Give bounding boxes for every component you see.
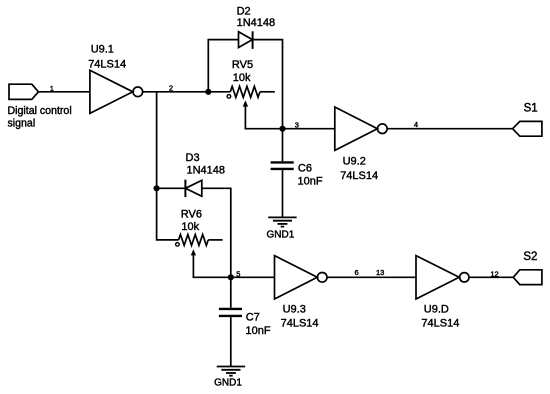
svg-text:2: 2	[169, 83, 173, 92]
diode D2	[239, 31, 253, 49]
wire node 3 down to C6	[282, 129, 284, 162]
svg-text:74LS14: 74LS14	[421, 318, 459, 330]
wire input to U9.1	[38, 91, 90, 93]
svg-text:U9.1: U9.1	[91, 43, 114, 55]
wire node 2 down to D3 branch	[156, 92, 158, 189]
wire node 5 down to C7	[230, 277, 232, 308]
svg-text:U9.D: U9.D	[424, 303, 449, 315]
wire U9.3 output to U9.D	[327, 276, 416, 278]
wire node 5	[231, 276, 275, 278]
potentiometer RV6	[176, 235, 223, 247]
ground GND1 (C6)	[268, 217, 296, 226]
svg-text:12: 12	[490, 269, 498, 278]
capacitor C7	[219, 309, 242, 316]
svg-text:4: 4	[414, 120, 418, 129]
output tag S1	[513, 121, 542, 136]
svg-text:C6: C6	[298, 163, 312, 175]
wire U9.D output to S2	[469, 276, 513, 278]
output tag S2	[513, 270, 542, 285]
wire C7 to ground	[230, 317, 232, 366]
wire down-left to RV6	[157, 188, 179, 240]
inverter U9.1	[90, 70, 143, 113]
wire D3 to vertical down to node 5	[202, 188, 231, 277]
svg-text:10nF: 10nF	[246, 325, 271, 337]
wire to D3	[157, 187, 186, 189]
svg-text:10k: 10k	[181, 221, 199, 233]
inverter U9.D	[416, 256, 469, 299]
RV6 wiper arrow	[191, 249, 231, 277]
junction node 2	[205, 89, 211, 95]
svg-text:S1: S1	[524, 103, 538, 115]
junction D3 anode node	[154, 185, 160, 191]
inverter U9.3	[275, 256, 328, 299]
svg-text:U9.3: U9.3	[283, 303, 306, 315]
svg-text:74LS14: 74LS14	[281, 318, 319, 330]
svg-text:10nF: 10nF	[298, 175, 323, 187]
svg-text:6: 6	[355, 268, 359, 277]
svg-text:D2: D2	[237, 5, 251, 17]
diode D3	[185, 180, 201, 197]
svg-text:74LS14: 74LS14	[340, 170, 378, 182]
svg-text:Digital control: Digital control	[8, 105, 72, 117]
svg-text:13: 13	[376, 268, 384, 277]
wire D2 cathode to vertical	[253, 40, 283, 129]
svg-text:S2: S2	[523, 251, 537, 263]
wire C6 to ground	[282, 170, 284, 217]
svg-text:10k: 10k	[233, 72, 251, 84]
wire node 3	[283, 128, 335, 130]
svg-text:GND1: GND1	[214, 378, 242, 389]
svg-text:signal: signal	[8, 117, 36, 129]
svg-text:1N4148: 1N4148	[237, 17, 276, 29]
svg-text:RV5: RV5	[232, 59, 253, 71]
wire U9.2 output to S1	[387, 128, 512, 130]
junction node 5	[228, 274, 234, 280]
inverter U9.2	[335, 107, 387, 150]
svg-text:3: 3	[295, 121, 299, 130]
svg-text:C7: C7	[246, 312, 260, 324]
svg-text:1: 1	[50, 84, 54, 93]
junction node 3	[279, 126, 285, 132]
RV5 wiper arrow	[243, 100, 283, 128]
svg-text:GND1: GND1	[267, 230, 295, 241]
svg-text:5: 5	[236, 269, 240, 278]
label Digital control signal	[8, 105, 72, 129]
wire node 2 up to D2 branch	[208, 40, 238, 92]
svg-text:1N4148: 1N4148	[187, 164, 226, 176]
svg-text:U9.2: U9.2	[343, 156, 366, 168]
input port tag Digital control signal	[9, 84, 38, 99]
svg-text:D3: D3	[186, 152, 200, 164]
svg-text:RV6: RV6	[181, 208, 202, 220]
wire U9.1 output to RV5 (node 2)	[143, 91, 231, 93]
potentiometer RV5	[227, 86, 275, 98]
svg-text:74LS14: 74LS14	[88, 59, 126, 71]
capacitor C6	[271, 162, 294, 169]
ground GND1 (C7)	[217, 367, 245, 376]
